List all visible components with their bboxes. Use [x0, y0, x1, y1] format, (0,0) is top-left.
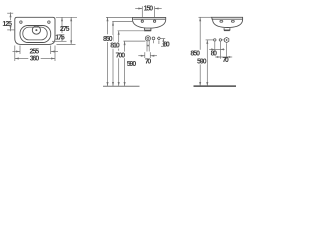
- right rear view basin outline: [211, 17, 242, 27]
- dim line 810 middle: [112, 22, 114, 86]
- dim 125 extension tick bottom (tap centerline): [7, 29, 15, 31]
- tick below middle angle valve: [158, 41, 160, 44]
- dim 150 extension tick left: [141, 6, 143, 17]
- right rear view rim inner line: [212, 18, 243, 20]
- arrowheads right 590: [206, 40, 208, 44]
- dim 125 line lower segment: [10, 27, 12, 31]
- arrowheads right dim 70: [217, 56, 221, 58]
- arrowheads right 850: [199, 17, 201, 21]
- pipe coupling dark blob: [147, 45, 150, 47]
- svg-text:810: 810: [110, 43, 120, 50]
- svg-text:590: 590: [197, 59, 207, 66]
- middle connection: wall drain ring outer: [145, 36, 150, 41]
- svg-text:360: 360: [30, 56, 40, 63]
- dim line 700 middle: [118, 31, 120, 86]
- dim 360 extension tick left: [14, 46, 16, 62]
- dim 255 extension tick left: [19, 46, 21, 55]
- ext line 810 middle (fixing holes level): [112, 20, 133, 22]
- dim 150 line right segment: [155, 8, 162, 10]
- svg-text:70: 70: [145, 58, 151, 65]
- label mask 850 middle: [103, 35, 113, 42]
- svg-text:70: 70: [222, 57, 228, 64]
- dim 80 right line: [215, 48, 221, 50]
- middle connection detail: drain pipe left line: [146, 41, 148, 52]
- arrowheads dim 255: [16, 51, 20, 53]
- plan view tap hole center dot: [35, 29, 37, 31]
- middle front view basin outline: [132, 17, 165, 28]
- dim 70 middle line segments: [138, 55, 145, 57]
- ext line 700 middle (drain tab bottom level): [118, 30, 145, 32]
- right rear view drain tab: [224, 28, 230, 30]
- floor line right: [194, 85, 237, 87]
- svg-text:80: 80: [211, 50, 217, 57]
- connector dash c2-hex: [222, 39, 225, 41]
- right view 850 dim line: [199, 17, 201, 86]
- svg-text:175: 175: [55, 34, 65, 41]
- label mask 590 middle: [126, 60, 136, 67]
- dim 360 line right segment: [41, 58, 55, 60]
- dim 175 line: [61, 17, 63, 33]
- svg-text:700: 700: [116, 52, 126, 59]
- right rear view left slot hole: [220, 20, 223, 22]
- right rear view drain tab bottom thick line: [224, 29, 230, 31]
- dim line 590 middle: [124, 41, 126, 86]
- middle front view drain tab: [145, 28, 151, 30]
- dim 275 line: [70, 17, 72, 44]
- svg-text:80: 80: [163, 42, 169, 49]
- label mask 850 right: [190, 50, 200, 56]
- arrowheads middle dim 80: [162, 39, 164, 42]
- right connection: valve hexagon: [224, 37, 229, 42]
- dim 80 middle vertical line: [162, 39, 164, 47]
- right detail ext tick under c2: [219, 42, 221, 59]
- dim 360 extension tick right: [54, 46, 56, 62]
- plan view tap hole: [32, 26, 40, 34]
- right connection: valve hexagon center dot: [226, 39, 228, 41]
- plan view bowl outer rim: [20, 26, 51, 43]
- plan view right fixing hole: [48, 21, 50, 23]
- arrowheads middle 590: [124, 41, 126, 45]
- label mask 810 middle: [110, 42, 120, 49]
- svg-text:590: 590: [127, 61, 137, 68]
- dim 175 bottom extension tick: [52, 40, 67, 42]
- dim 150 line left segment: [135, 8, 142, 10]
- dim 80 middle bottom tick: [161, 45, 165, 47]
- dim 255 line left segment: [13, 51, 21, 53]
- dim 80 middle top tick: [161, 38, 165, 40]
- plan view outer outline: [15, 17, 55, 44]
- arrowheads dim 150: [138, 8, 142, 10]
- svg-text:850: 850: [190, 51, 200, 58]
- svg-text:125: 125: [2, 21, 12, 28]
- arrowheads dim 125: [10, 13, 12, 17]
- dim 125 line upper segment: [10, 12, 12, 20]
- dim 275 bottom extension tick (plan bottom edge): [57, 43, 76, 45]
- right connection: supply circle 2: [219, 39, 221, 41]
- plan view bowl inner rim: [23, 27, 47, 40]
- label mask 590 right: [197, 58, 207, 64]
- right view 590 dim line: [206, 40, 208, 86]
- dim 255 extension tick right: [50, 46, 52, 55]
- dim 70 middle ticks: [144, 52, 146, 58]
- middle front view right fixing hole: [154, 20, 156, 22]
- right detail ext tick under c1: [214, 42, 216, 52]
- plan view left fixing hole: [20, 21, 22, 23]
- svg-text:150: 150: [144, 6, 154, 13]
- floor line middle: [103, 85, 140, 87]
- plan right top extension line: [56, 16, 77, 18]
- dim line 850 middle: [107, 17, 109, 86]
- middle connection detail: drain pipe right line: [148, 41, 150, 52]
- tick below middle supply circle: [153, 40, 155, 43]
- dim 360 line left segment: [15, 58, 28, 60]
- middle connection: wall drain ring inner: [147, 37, 149, 39]
- middle connection: supply circle: [152, 37, 155, 40]
- label mask 700 middle: [115, 52, 125, 59]
- svg-text:275: 275: [60, 26, 70, 33]
- middle connection: angle valve diamond: [157, 37, 160, 40]
- arrowheads middle 700: [118, 31, 120, 35]
- dim 255 line right segment: [51, 51, 58, 53]
- arrowheads dim 175: [61, 17, 63, 21]
- dim 70 right line: [220, 56, 226, 58]
- ext line 850 middle: [106, 16, 133, 18]
- middle front view rim inner line: [133, 18, 165, 20]
- svg-text:255: 255: [30, 48, 40, 55]
- arrowheads middle dim 70: [141, 55, 145, 57]
- arrowheads dim 360: [15, 58, 19, 60]
- middle front view drain tab bottom thick line: [144, 30, 151, 32]
- dim 125 extension tick top: [7, 12, 13, 14]
- right view 850 extension line: [199, 16, 212, 18]
- right connection: supply circle 1: [214, 39, 216, 41]
- arrowheads middle 850: [107, 17, 109, 21]
- arrowheads right dim 80: [211, 48, 215, 50]
- right detail ext tick under hex: [226, 43, 228, 59]
- middle front view left fixing hole: [141, 20, 143, 22]
- dim 150 extension tick right: [154, 6, 156, 17]
- right rear view right slot hole: [231, 20, 234, 22]
- right view 590 extension line: [206, 39, 214, 41]
- arrowheads middle 810: [112, 22, 114, 26]
- ext line 590 middle (drain connection level): [123, 40, 145, 42]
- arrowheads dim 275: [70, 17, 72, 21]
